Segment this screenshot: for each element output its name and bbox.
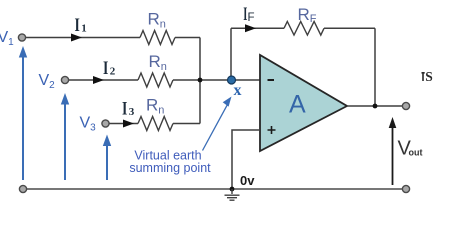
current arrow I3 <box>123 120 134 128</box>
resistor R3 (Rn) zigzag <box>138 117 173 131</box>
vertical bus wire joining rows <box>199 38 201 124</box>
Vout arrow <box>392 126 394 185</box>
junction dot ground <box>230 187 235 192</box>
voltage arrow V1 <box>22 56 24 180</box>
input terminal V1 <box>18 34 25 41</box>
output terminal <box>402 102 409 109</box>
input terminal V2 <box>61 76 68 83</box>
ground symbol <box>225 189 240 200</box>
text fragment TS at right edge <box>422 72 425 81</box>
annotation arrow to virtual earth node <box>203 105 228 151</box>
wire row1 R1 to bus <box>175 37 200 39</box>
svg-text:I: I <box>75 14 80 36</box>
feedback wire up from node x <box>230 28 232 80</box>
input terminal V3 <box>102 120 109 127</box>
junction dot bus/row2 <box>198 78 203 83</box>
resistor R2 (Rn) zigzag <box>138 73 173 87</box>
feedback top wire right segment <box>324 27 375 29</box>
resistor R1 (Rn) zigzag <box>140 31 175 45</box>
svg-text:summing point: summing point <box>129 161 211 175</box>
svg-text:3: 3 <box>129 106 135 118</box>
svg-text:I: I <box>103 57 108 79</box>
wire row2 V2 to R2 <box>69 79 138 81</box>
current arrow I1 <box>71 34 82 42</box>
feedback top wire left segment <box>231 27 284 29</box>
wire row1 V1 to R1 <box>26 37 140 39</box>
op-amp U1 triangle <box>260 55 347 151</box>
svg-text:x: x <box>234 82 242 99</box>
current arrow IF <box>245 24 256 32</box>
feedback wire down to output <box>374 28 376 106</box>
svg-text:out: out <box>409 148 423 158</box>
svg-text:1: 1 <box>81 23 87 35</box>
wire plus input to ground rail <box>232 130 260 189</box>
voltage arrow V2 <box>64 103 66 180</box>
wire row3 V3 to R3 <box>110 123 139 125</box>
wire row2 R2 to op-amp minus input <box>173 79 260 81</box>
bottom-right terminal <box>402 185 409 192</box>
svg-text:A: A <box>289 91 306 119</box>
svg-text:0v: 0v <box>240 173 255 188</box>
wire row3 R3 to bus <box>173 123 200 125</box>
voltage arrow V3 <box>106 145 108 180</box>
bottom-left terminal <box>19 185 26 192</box>
node x (virtual earth summing point) <box>228 76 236 84</box>
svg-text:I: I <box>122 97 127 119</box>
svg-text:F: F <box>248 12 255 24</box>
op-amp plus sign <box>268 126 276 134</box>
output wire <box>347 105 402 107</box>
op-amp minus sign <box>268 79 275 81</box>
svg-text:S: S <box>425 69 433 84</box>
junction dot feedback/output <box>373 104 378 109</box>
current arrow I2 <box>93 76 104 84</box>
resistor RF zigzag <box>284 21 324 35</box>
bottom rail wire <box>27 188 402 190</box>
svg-text:2: 2 <box>110 66 116 78</box>
